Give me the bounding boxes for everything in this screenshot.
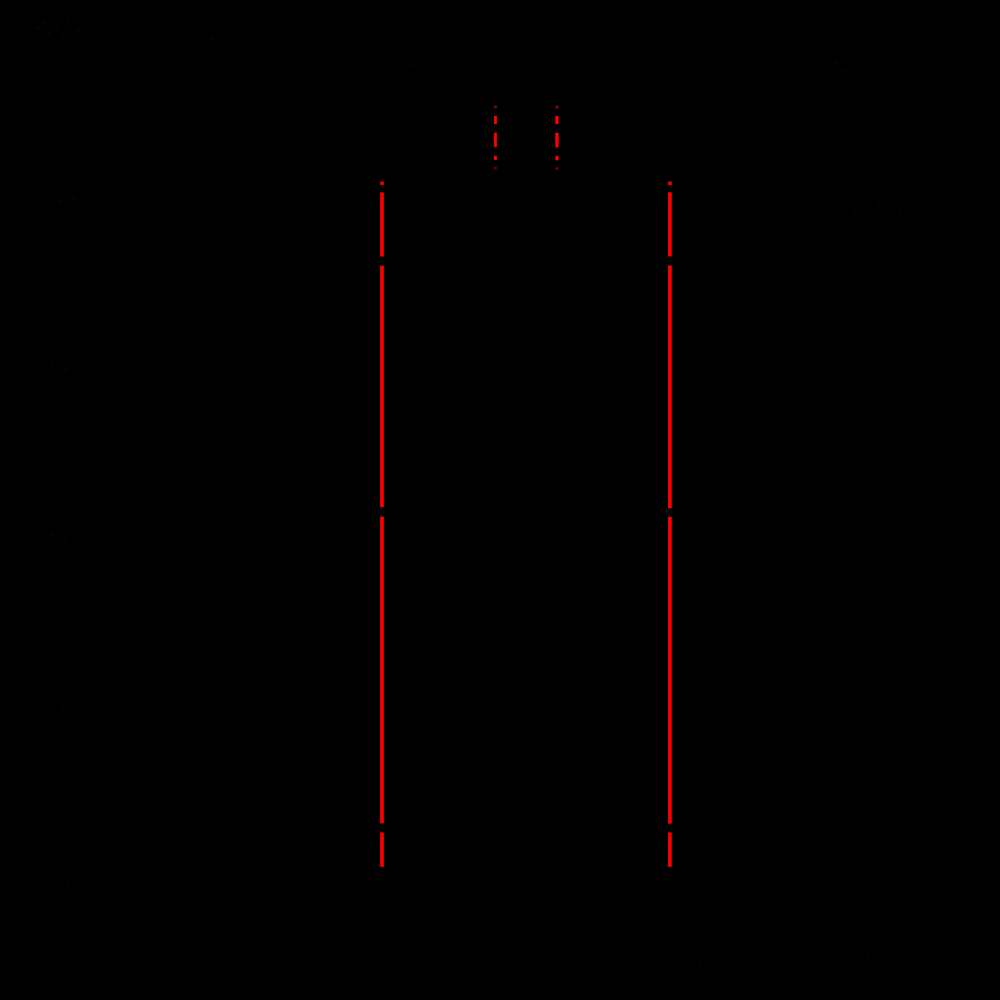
wire: long dashed red line right (x=669.7) bbox=[668, 182, 672, 867]
faint ink cluster top-left bbox=[36, 19, 87, 38]
faint ink bottom strip bbox=[203, 934, 884, 977]
wire: top dashed red column B (x=557) bbox=[555, 106, 558, 170]
wire: top dashed red column A (x=495.4) bbox=[494, 106, 497, 170]
faint ink cluster top-middle bbox=[198, 28, 847, 74]
faint ink cluster left margin labels bbox=[46, 194, 82, 886]
faint ink cursive right of lines bbox=[788, 198, 902, 214]
wire: long dashed red line left (x=382) bbox=[380, 182, 384, 867]
